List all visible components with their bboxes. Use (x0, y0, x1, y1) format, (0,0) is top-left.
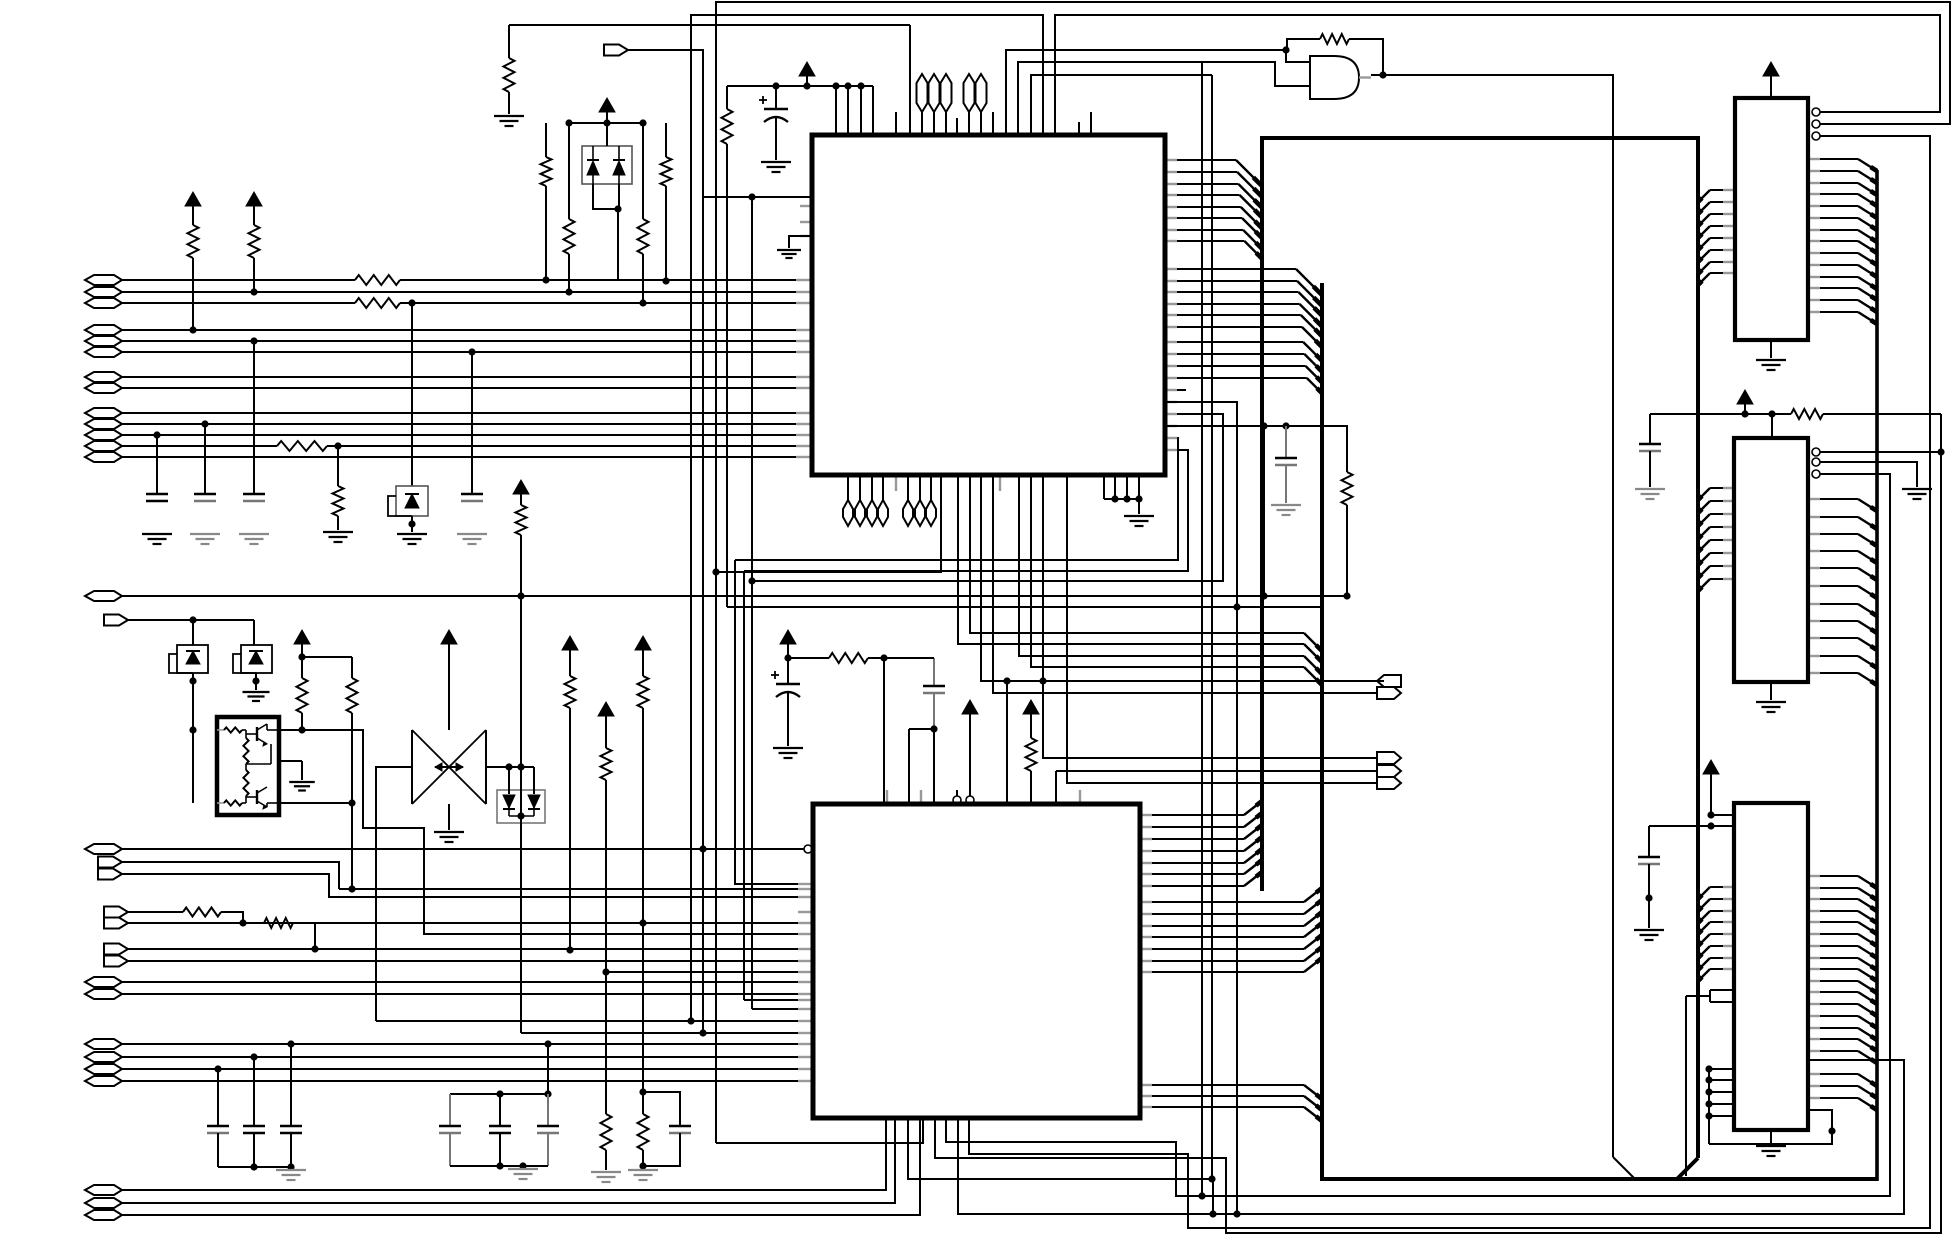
wire row 1203 (122, 1118, 895, 1203)
power arrow above U4 (1737, 390, 1753, 414)
wire row1000 (744, 999, 812, 1001)
wire AND output (1371, 75, 1613, 1157)
U2 top stubs (887, 790, 1080, 804)
wire row 1215 (122, 1118, 920, 1215)
ground below R20 (494, 116, 524, 126)
wire row1033 (521, 1032, 812, 1034)
wire row 972 (606, 971, 812, 973)
capacitor C12 (643, 1092, 691, 1166)
ground U1 left pin (777, 250, 801, 258)
net flag F3 above U1 (941, 74, 952, 135)
ground C3 (190, 534, 220, 544)
junction row435 (153, 431, 160, 438)
wire R4 pullup (185, 192, 201, 330)
junction on row 849 (699, 845, 706, 852)
resistor R24 (661, 123, 672, 281)
resistor R6 to gnd (333, 446, 344, 530)
wire v1007 (1006, 681, 1008, 804)
connector flag M5 (1377, 777, 1401, 789)
connector P5 pentagon (104, 907, 128, 918)
U2 bubble left (804, 845, 812, 853)
connector P4 pentagon (98, 869, 122, 880)
connector P2 pentagon (104, 615, 128, 626)
ground below U4 (1756, 682, 1786, 712)
junction row923 merge (239, 919, 246, 926)
wire row 874 bend (122, 874, 812, 897)
wire U1 gnd pin (789, 236, 812, 248)
U4 bubble pins (1812, 448, 1820, 478)
wire row1009 (752, 1008, 812, 1010)
wire row 982 (122, 981, 812, 983)
wire row783 to flag (1067, 475, 1377, 783)
capacitor C3 (194, 494, 216, 501)
bus1 vertical (1260, 136, 1264, 891)
junction D1 rail left (565, 119, 572, 126)
wire wrap row571 (744, 450, 1188, 571)
wire U2 pin908 net (908, 1118, 1213, 1214)
wire Q-box mid gnd (279, 761, 302, 780)
triac symbol (412, 730, 486, 804)
ground triac (434, 832, 464, 842)
junction row1214 x1213 (1209, 1210, 1216, 1217)
connector J4 hexagon (85, 977, 122, 987)
wire row 1057 (122, 1056, 812, 1058)
wire rail stubs to U1 top (836, 86, 873, 135)
wire AND feedback top (1349, 39, 1383, 75)
connector P7 pentagon (104, 944, 128, 955)
connector flag M4 (1377, 765, 1401, 777)
junction R9 row803 (348, 799, 355, 806)
connector J2 hexagon (85, 591, 122, 601)
junction row1021 x691 (687, 1017, 694, 1024)
capacitor C17 (1638, 826, 1660, 898)
connector J8 hexagon (85, 1064, 122, 1074)
ground capgrp2 (508, 1169, 538, 1179)
wire C15 top (884, 657, 934, 659)
junction below D2 (408, 520, 415, 527)
and gate U6 (1310, 56, 1359, 99)
junction rail-arrow (803, 82, 810, 89)
ground below C10 (761, 162, 791, 172)
ground R14 (591, 1172, 621, 1182)
wire row692 to flag (993, 475, 1377, 693)
junction capgrp2 gnd (519, 1162, 526, 1169)
connector J10 hexagon (85, 1185, 122, 1195)
bus2 vertical (1320, 283, 1324, 1181)
resistor R16 (1342, 472, 1353, 596)
ground D2 (397, 516, 427, 544)
wire row 862 bend (122, 862, 339, 889)
capacitor C2 (146, 494, 168, 501)
junction C17 (1645, 894, 1652, 901)
wire row 1069 (122, 1068, 812, 1070)
capacitor C7 (280, 1044, 302, 1167)
connector J3 hexagon (85, 844, 122, 854)
IC U5 (1734, 803, 1808, 1130)
U3 bubble pins (1812, 108, 1820, 140)
resistor R14 (601, 1114, 612, 1170)
junction R8 bottom (298, 726, 305, 733)
capacitor C5 (207, 1069, 229, 1167)
connector J1 hexagon flags (85, 275, 122, 462)
power arrow V8 (562, 636, 578, 676)
U1 bottom stubs (896, 475, 1000, 491)
wire U5 left mid pins (1686, 990, 1734, 1176)
capacitor C16 (1639, 414, 1661, 487)
U1 bottom flags group2 (903, 475, 936, 526)
ground cap group (276, 1170, 306, 1180)
junction row1044 (287, 1040, 294, 1047)
connector J7 hexagon (85, 1052, 122, 1062)
wire rail to U2 top (883, 658, 885, 804)
ground U4 b2 (1902, 489, 1932, 499)
capacitor C1 (243, 494, 265, 501)
junction D1 rail right (639, 119, 646, 126)
junction R11 row972 (602, 968, 609, 975)
IC U4 (1734, 438, 1808, 682)
junction V6 (298, 653, 305, 660)
junction v1264 top (1260, 422, 1267, 429)
wire pentagon P1 net (628, 50, 703, 1033)
junction U5 br (1828, 1127, 1835, 1134)
connector J12 hexagon (85, 1210, 122, 1220)
ground C1 (239, 534, 269, 544)
junction U4 rail2 (1768, 410, 1775, 417)
junction U2 rail (784, 654, 791, 661)
resistor R22 (564, 123, 575, 292)
ground Q-box (289, 782, 315, 791)
junction row1196 x1201 (1198, 1192, 1205, 1199)
bus far-right vertical (1875, 170, 1879, 1181)
wire row 1081 (122, 1080, 812, 1082)
junction U5 a (1707, 811, 1714, 818)
wire bundle U4 left to bus (1698, 488, 1734, 591)
wire U1 pin 426 to R16 (1165, 426, 1347, 472)
wire V6 to R9 (302, 656, 352, 658)
power arrow above U3 (1763, 62, 1779, 98)
ground below U5 (1756, 1146, 1786, 1156)
zener D2 box (388, 303, 428, 516)
junction row446 tap (334, 442, 341, 449)
wire triac right (486, 766, 534, 768)
wire V5 net down (520, 596, 522, 1033)
capacitor C1 leg (253, 341, 255, 494)
net flag F2 above U1 (929, 74, 940, 135)
resistor R19 (1791, 409, 1941, 419)
net flag F5 above U1 (976, 74, 987, 135)
wire U2 pin923 net (716, 1118, 923, 1143)
wire v1264 loop (1263, 426, 1265, 596)
ground R6 (323, 532, 353, 542)
junction capgrp2 a (496, 1090, 503, 1097)
wire AND feedback left (1287, 39, 1320, 50)
wire bundle U2 right bottom to bus2 (1140, 1085, 1322, 1121)
resistor R7 (516, 505, 527, 596)
resistor R9 (347, 657, 358, 889)
wire bundle U1 right to bus2 (1165, 269, 1322, 393)
diag jog of AND net into bottom bus (1613, 1157, 1635, 1179)
power arrow U2 topB (1023, 700, 1039, 738)
wire capgrp2 feed (547, 1044, 549, 1094)
junction row607 x1237 (1233, 603, 1240, 610)
junction row424 (201, 420, 208, 427)
wire U2 pin958 net (958, 1060, 1904, 1214)
wire top loop B left (691, 15, 1043, 1021)
connector flag M1 left (1377, 675, 1401, 687)
wire clk row (703, 196, 812, 198)
resistor R8 (297, 657, 308, 730)
wire row 849 (122, 848, 804, 850)
diode box D1 (582, 123, 632, 184)
junction capfeed (544, 1040, 551, 1047)
resistor R11 (601, 748, 612, 1114)
wire row 923 (128, 922, 812, 924)
resistor R18 (1026, 738, 1037, 804)
junction R21 on row 280 (542, 276, 549, 283)
wire U2 pin969 net to U3b3 (969, 136, 1930, 1228)
wire triac bottom stem (448, 804, 450, 830)
junction rail-a (832, 82, 839, 89)
junction D5 bottom (517, 812, 524, 819)
junction row1179 x1212 (1208, 1175, 1215, 1182)
wire row 961 (128, 960, 812, 962)
U1 left stubs (800, 206, 812, 236)
junction feedback tap (1282, 46, 1289, 53)
ground below U3 (1756, 340, 1786, 370)
U1 clock pin 1 (812, 176, 821, 188)
junction R24 on row 281 (662, 277, 669, 284)
power arrow net V5 (513, 480, 529, 505)
resistor R3 in row 446 (277, 441, 327, 451)
connector J5 hexagon (85, 989, 122, 999)
power arrow on U1 top rail (799, 62, 815, 86)
junction C15 bottom (930, 725, 937, 732)
junction R12 row923 (639, 919, 646, 926)
wire U2 pin946 net row1196 (946, 474, 1890, 1196)
junction row330 (189, 326, 196, 333)
junction clk row (748, 193, 755, 200)
IC U1 (812, 135, 1165, 475)
wire U1 to AND area (1031, 75, 1212, 135)
wire row 994 (122, 993, 812, 995)
resistor R10 (565, 676, 576, 950)
wire row 888 (339, 888, 812, 890)
U1 left row stubs (796, 280, 812, 457)
wire top loop B right (1055, 15, 1940, 135)
ground U1 bottom (1124, 516, 1154, 526)
ground C16 (1635, 489, 1665, 499)
junction rail-cap (772, 82, 779, 89)
wire capgrp2 bottom rail (450, 1165, 548, 1167)
wire bundle U4 right to bus (1808, 499, 1877, 685)
capacitor C2 leg (156, 435, 158, 494)
resistor R1 in row 280 (355, 275, 400, 285)
IC U3 (1735, 98, 1808, 340)
net flag F4 above U1 (964, 74, 975, 135)
wire U4 b1 link (1820, 451, 1941, 453)
wire D3 to Q-box (192, 673, 194, 803)
power arrow above U2 left (780, 630, 796, 658)
wire Qbox pin2 (279, 802, 352, 804)
junction row292b (250, 288, 257, 295)
junction row1069 (214, 1065, 221, 1072)
wire U4 b2 gnd (1820, 462, 1917, 487)
wire bundle U2 right to bus2 (1140, 888, 1322, 972)
transistor box Q1Q2 (217, 717, 279, 815)
junction cap rail2 (287, 1163, 294, 1170)
junction v1264 bot (1260, 592, 1267, 599)
wire U4 vcc rail (1650, 414, 1791, 438)
wire U2 pin935 net row1233 (935, 414, 1941, 1233)
capacitor C3 leg (204, 424, 206, 494)
zener D4 box (233, 620, 272, 673)
junction pin426 cap (1282, 422, 1289, 429)
junction row681 a (1003, 677, 1010, 684)
junction R22 on row 292 (565, 288, 572, 295)
wire capgrp2 top rail (450, 1093, 548, 1095)
junction row303 tap (408, 299, 415, 306)
junction U5 b (1707, 822, 1714, 829)
wire below D1 diodes (593, 184, 622, 281)
junction capgrp2 b (544, 1090, 551, 1097)
wire row1021 (376, 1020, 812, 1022)
junction row1057 (250, 1053, 257, 1060)
wire U5 bottom right (1808, 1110, 1832, 1131)
wire bundle U3 right to bus (1808, 159, 1877, 324)
junction below D4 (252, 677, 259, 684)
wire AND input B from U1 (1018, 62, 1310, 135)
wire D1 top rail (569, 122, 643, 124)
resistor R2 in row 303 (355, 298, 400, 308)
U1 top pin ticks (896, 112, 1091, 135)
junction R23 on row 303 (639, 299, 646, 306)
resistor R26 feedback (1320, 34, 1349, 44)
net flag F1 above U1 (917, 74, 928, 135)
wire U2 stub 957 (956, 790, 958, 796)
wire row 949 (128, 948, 812, 950)
wire bundle U2 right to bus1 (1140, 801, 1262, 886)
junction v1941 row452 (1937, 448, 1944, 455)
junction wrap572 (712, 568, 719, 575)
wire v1212 (1211, 75, 1213, 1179)
wire bundle U3 left to bus (1698, 190, 1735, 285)
wire bundle U5 left to bus (1698, 887, 1734, 981)
junction R15 top (639, 1088, 646, 1095)
U1 clock pin 2 (812, 191, 821, 203)
capacitor C6 (243, 1057, 265, 1167)
capacitor C4 leg (471, 352, 473, 494)
bus bottom (1320, 1177, 1877, 1181)
connector J9 hexagon (85, 1076, 122, 1086)
junction R15 bot (639, 1162, 646, 1169)
wire v744 (743, 571, 745, 1000)
junction row352 tap (468, 348, 475, 355)
connector J11 hexagon (85, 1198, 122, 1208)
wire U5 left lower pins (1705, 1065, 1734, 1144)
ground C14 (773, 748, 803, 758)
wire bundle U1 right to bus1 (1165, 160, 1262, 259)
junction rail-b (844, 82, 851, 89)
wire triac left (376, 767, 412, 1021)
wire U1 pin 402 wrap (1165, 402, 1237, 1214)
wire top rail V1 (509, 24, 910, 26)
wire bundle U5 right to bus (1808, 876, 1877, 1110)
power arrow above U5 (1703, 760, 1719, 815)
ground D4 (243, 673, 270, 701)
junction U4 rail (1741, 410, 1748, 417)
wire VCC rail above U1 (727, 85, 873, 87)
capacitor C14 electrolytic (771, 658, 800, 746)
wire R5 pullup (246, 192, 262, 292)
junction row888 (348, 885, 355, 892)
junction below D3 (189, 677, 196, 684)
bus right vertical (1677, 136, 1698, 1179)
ground C13 (1271, 505, 1301, 515)
junction row1033 x703 (699, 1029, 706, 1036)
power arrow U2 topA (962, 700, 978, 800)
U2 top bubbles (953, 796, 974, 804)
capacitor C13 (1275, 426, 1297, 503)
junction triac-D5b (517, 763, 524, 770)
wire bundle U1 bottom to bus2 (958, 475, 1322, 685)
wire cap group bottom rail (218, 1166, 291, 1168)
ground C4 (457, 534, 487, 544)
capacitor C8 (439, 1094, 461, 1166)
capacitor C4 (461, 494, 483, 501)
wire U5 pin826 (1649, 825, 1734, 827)
capacitor C9 (489, 1094, 511, 1166)
ground C2 (142, 534, 172, 544)
U1 bottom flags group1 (843, 475, 888, 526)
and gate output stub (1359, 76, 1371, 78)
junction row681 b (1039, 677, 1046, 684)
junction R10 row949 (566, 946, 573, 953)
resistor R12 (638, 676, 649, 1092)
resistor R17 above U2 (788, 653, 884, 663)
junction R17 right (880, 654, 887, 661)
wire C15 net (909, 729, 934, 804)
junction v752 row581 (748, 577, 755, 584)
junction AND output (1379, 71, 1386, 78)
power arrow V10 (635, 636, 651, 676)
resistor R23 (638, 123, 649, 303)
wire row681 to flag (981, 475, 1384, 681)
junction D3-Q top (189, 726, 196, 733)
resistor R13 in row 923 (264, 918, 315, 949)
power arrow above D1 box (599, 98, 615, 123)
IC U2 (813, 804, 1140, 1118)
capacitor C15 (923, 658, 945, 729)
wire wrap row572 (716, 475, 941, 572)
U2 clock pin 1 (813, 809, 822, 821)
connector flag M3 (1377, 752, 1401, 764)
wire AND input A from U1 (1006, 50, 1286, 135)
wire U5 pin815 (1711, 814, 1734, 816)
connector P1 (604, 45, 628, 56)
diode box D5 (497, 767, 545, 823)
ground R15 (628, 1170, 658, 1180)
resistor R20 pullup at far top-left (504, 25, 515, 114)
wires J1 rows to U1 (122, 280, 812, 457)
junction rail-c (857, 82, 864, 89)
U2 left pin stubs (798, 884, 813, 1081)
power arrow V7 (441, 630, 457, 730)
wire row 596 (122, 595, 1347, 597)
resistor R25 left of rail (722, 86, 733, 607)
junction cap rail (250, 1163, 257, 1170)
wire row 1044 (122, 1043, 812, 1045)
wire row758 to flag (1043, 475, 1377, 758)
